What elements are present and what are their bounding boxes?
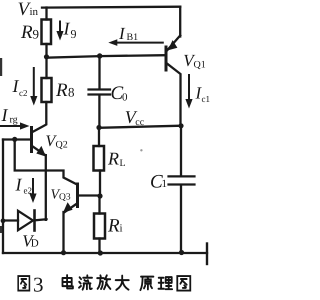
svg-text:cc: cc	[135, 117, 144, 128]
svg-text:D: D	[31, 238, 39, 250]
svg-text:c2: c2	[19, 88, 28, 98]
svg-text:R: R	[20, 22, 33, 43]
svg-text:rg: rg	[10, 115, 18, 126]
svg-text:9: 9	[71, 27, 77, 41]
svg-text:0: 0	[122, 92, 128, 104]
svg-text:I: I	[1, 105, 9, 125]
svg-text:R: R	[55, 80, 68, 101]
svg-text:I: I	[15, 175, 23, 195]
svg-text:1: 1	[162, 178, 168, 190]
svg-text:c1: c1	[202, 94, 211, 104]
svg-text:I: I	[63, 19, 71, 39]
svg-text:i: i	[120, 223, 123, 235]
svg-text:L: L	[120, 158, 126, 169]
svg-text:3: 3	[33, 272, 44, 296]
svg-text:Q2: Q2	[56, 140, 68, 151]
svg-text:in: in	[30, 6, 39, 18]
svg-text:8: 8	[68, 85, 75, 100]
svg-text:B1: B1	[127, 32, 139, 43]
svg-text:e2: e2	[24, 186, 33, 196]
svg-text:Q3: Q3	[59, 193, 71, 203]
svg-text:9: 9	[33, 27, 40, 42]
svg-text:R: R	[107, 216, 120, 237]
svg-text:R: R	[107, 149, 119, 169]
svg-text:Q1: Q1	[194, 60, 206, 71]
